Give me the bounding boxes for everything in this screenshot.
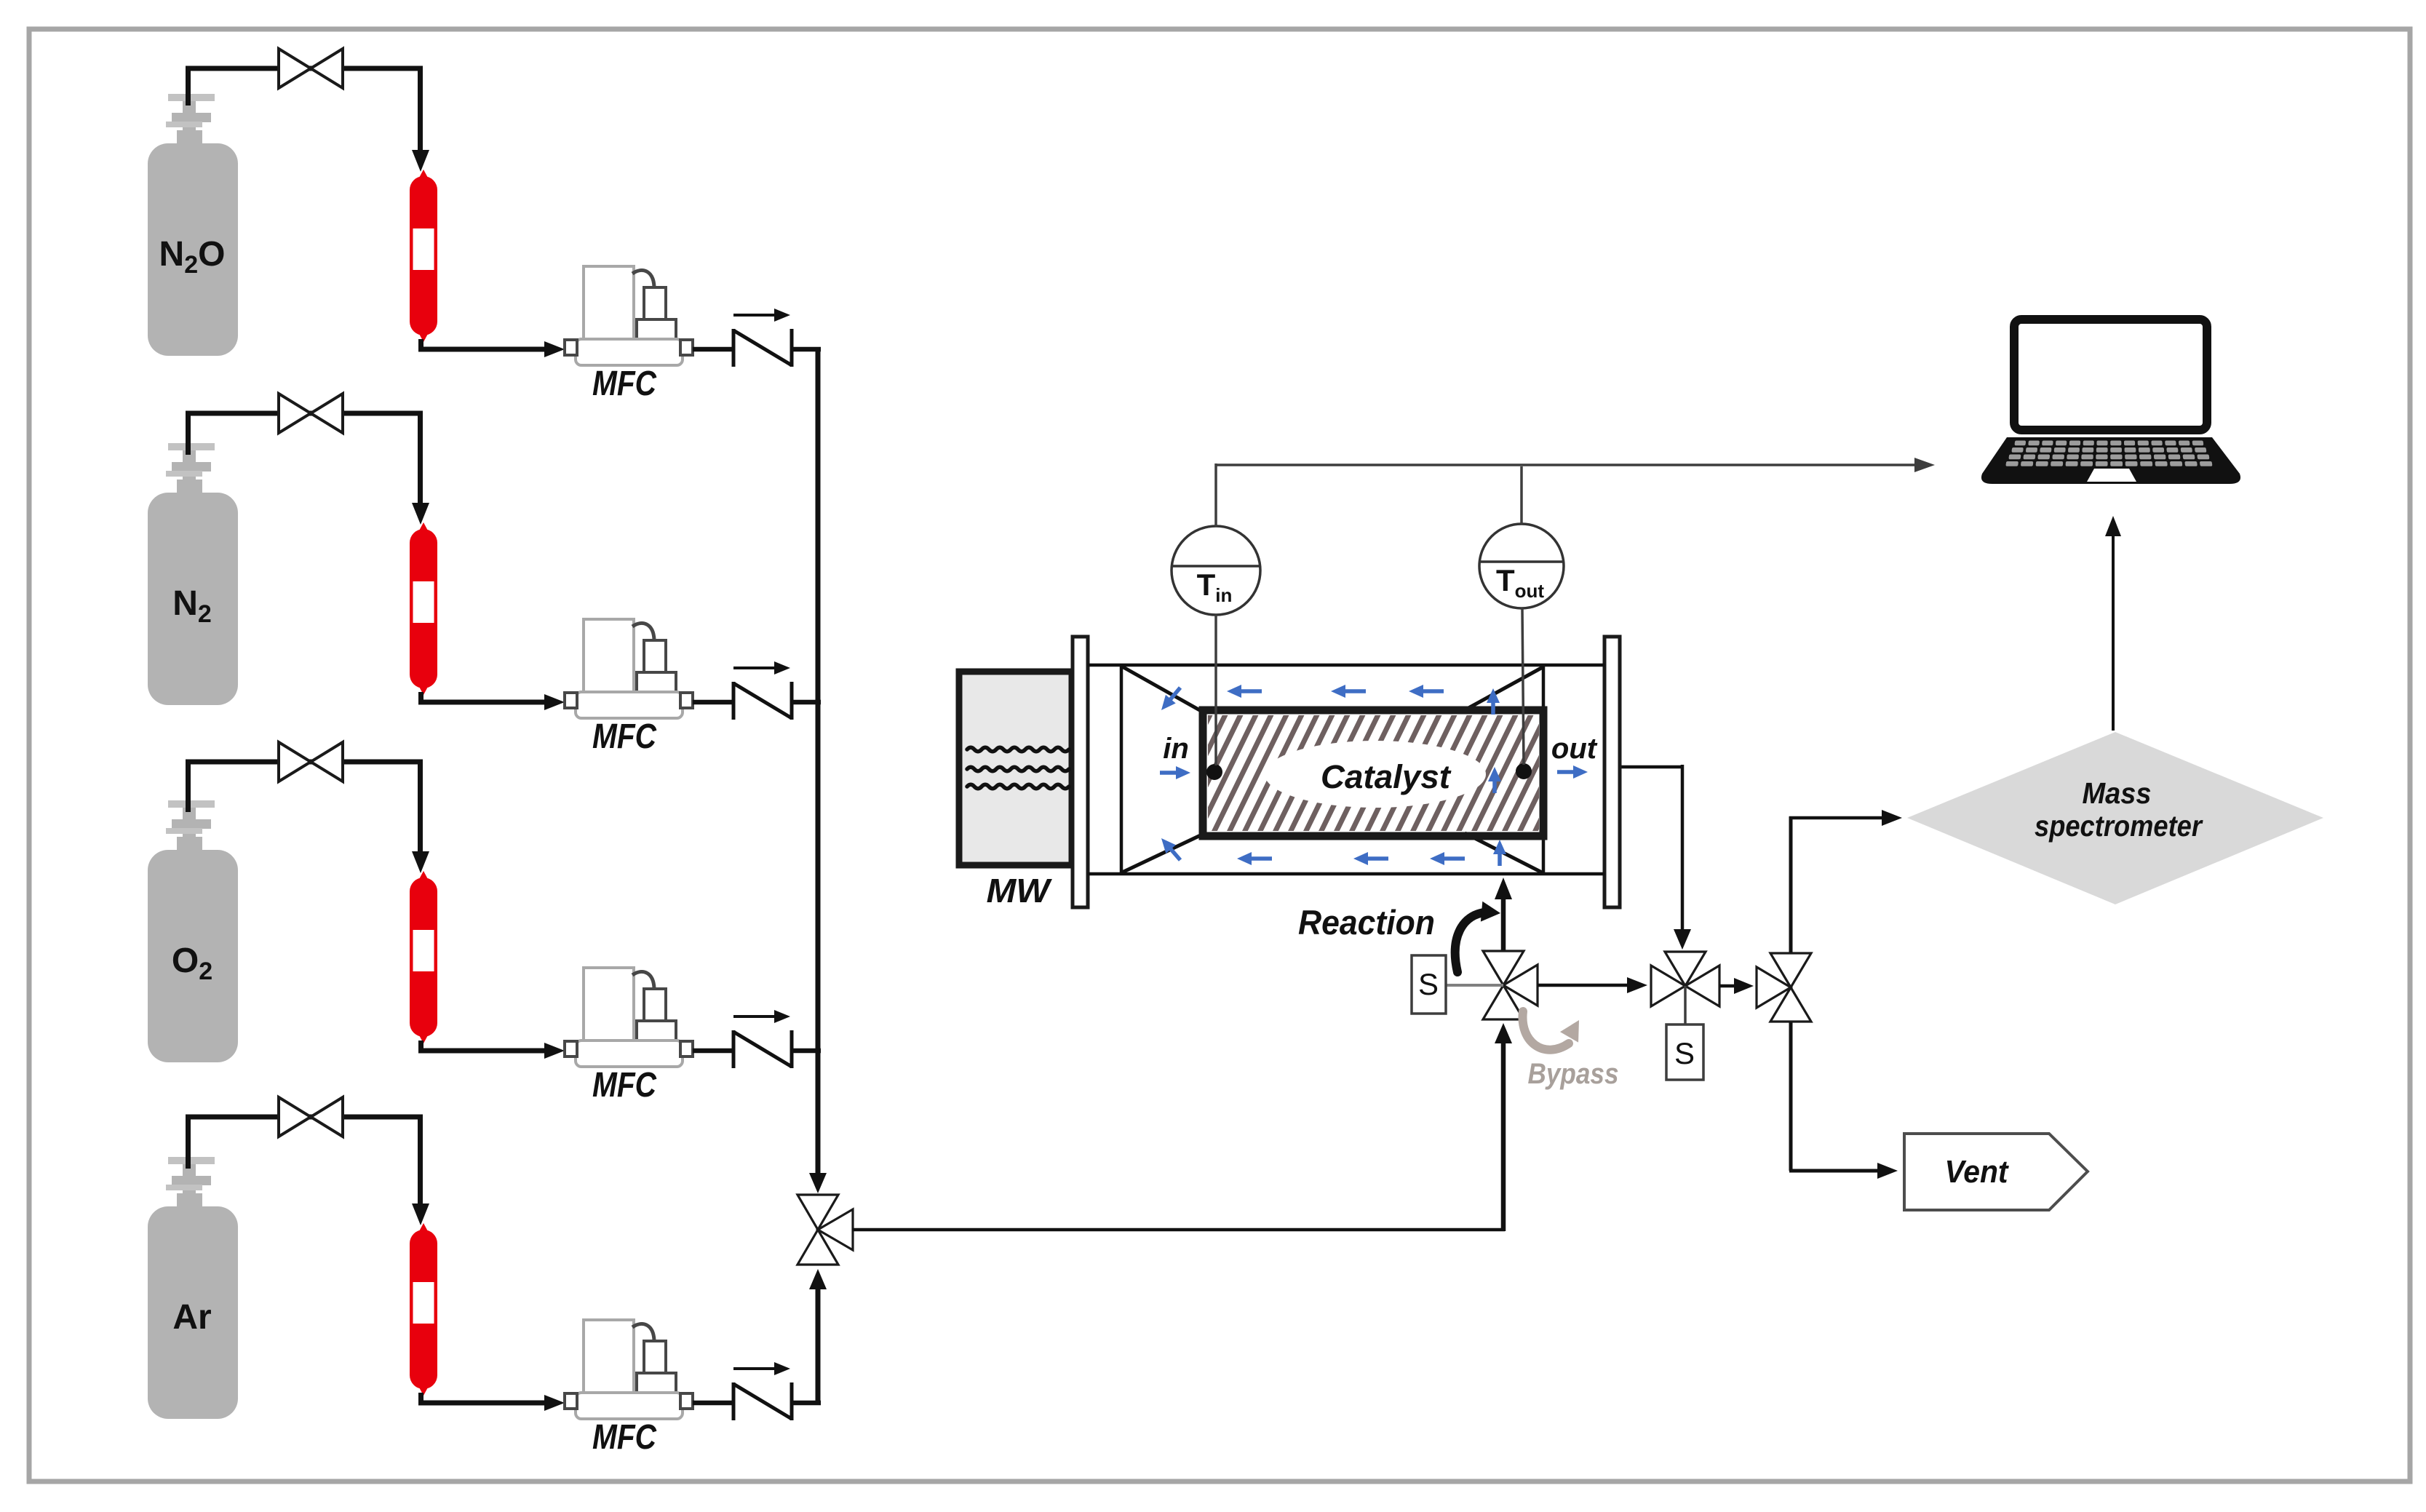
svg-text:in: in <box>1163 733 1189 765</box>
svg-text:S: S <box>1674 1036 1695 1070</box>
svg-text:Mass: Mass <box>2083 776 2152 810</box>
svg-text:MW: MW <box>987 872 1053 910</box>
svg-text:Bypass: Bypass <box>1528 1058 1619 1090</box>
svg-text:out: out <box>1551 733 1598 765</box>
svg-text:spectrometer: spectrometer <box>2035 809 2203 843</box>
svg-text:MFC: MFC <box>592 1066 657 1105</box>
svg-text:S: S <box>1418 967 1439 1001</box>
svg-text:Reaction: Reaction <box>1298 903 1435 942</box>
svg-text:MFC: MFC <box>592 717 657 756</box>
svg-text:Catalyst: Catalyst <box>1321 758 1452 795</box>
svg-text:MFC: MFC <box>592 1418 657 1457</box>
svg-text:Ar: Ar <box>172 1298 211 1337</box>
svg-text:Vent: Vent <box>1945 1154 2010 1190</box>
svg-text:MFC: MFC <box>592 365 657 403</box>
